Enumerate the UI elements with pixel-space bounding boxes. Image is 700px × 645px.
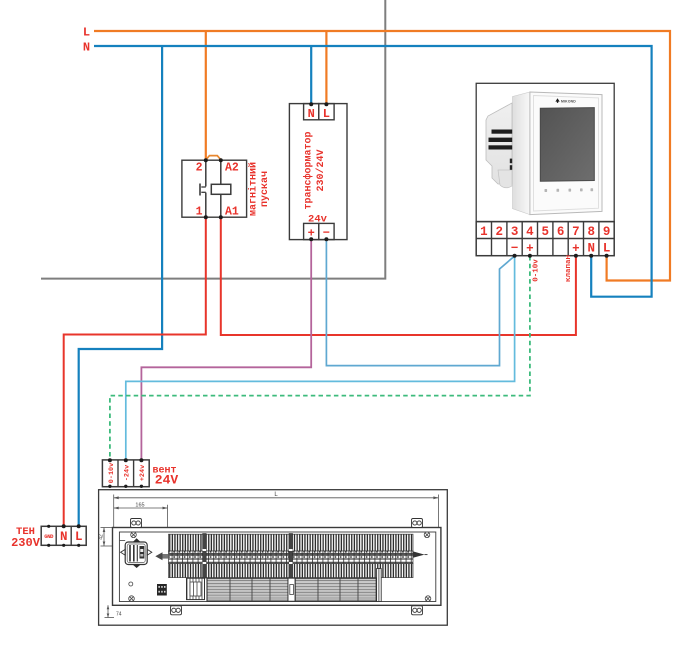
heat exchanger fins top band bbox=[169, 534, 414, 551]
heat exchanger fins bottom band bbox=[169, 564, 414, 578]
svg-text:0-10v: 0-10v bbox=[532, 259, 540, 282]
svg-text:5: 5 bbox=[541, 225, 549, 239]
convector unit drawing bbox=[99, 490, 448, 626]
bracket bar 3 bbox=[377, 569, 382, 602]
svg-text:A1: A1 bbox=[225, 206, 239, 219]
heat-sink fin 3 bbox=[489, 145, 513, 149]
svg-text:9: 9 bbox=[603, 225, 611, 239]
dimension 165 bbox=[114, 505, 168, 533]
contactor K1 (магнітний пускач) bbox=[182, 160, 247, 217]
valve bottom lug bbox=[133, 565, 141, 569]
svg-text:2: 2 bbox=[495, 225, 503, 239]
svg-text:74: 74 bbox=[116, 612, 122, 618]
wire N branch to transformer N bbox=[310, 46, 312, 105]
thermostat logo MIKOND bbox=[555, 98, 559, 103]
wire L bus (orange) to thermostat terminal 9 bbox=[94, 31, 670, 281]
TEN terminal block (ТЕН 230V) bbox=[41, 526, 86, 545]
pipe stub to valve bbox=[119, 540, 125, 542]
svg-text:+24v: +24v bbox=[139, 465, 147, 481]
svg-text:GND: GND bbox=[44, 533, 54, 540]
svg-text:N: N bbox=[308, 107, 315, 121]
thermostat terminal strip bbox=[476, 222, 614, 256]
svg-text:L: L bbox=[323, 107, 330, 121]
fan motor box bbox=[187, 578, 205, 599]
svg-text:42: 42 bbox=[99, 534, 105, 540]
wire jumper contactor 2 to A2 (orange) bbox=[206, 156, 221, 160]
contactor node dots bbox=[204, 158, 223, 219]
thermostat screen bbox=[540, 108, 594, 182]
svg-text:3: 3 bbox=[511, 225, 519, 239]
corner screw bottom-right bbox=[425, 596, 431, 602]
svg-text:N: N bbox=[587, 242, 595, 256]
wire green dashed 0-10v: thermostat terminal 4 to vent 0-10v bbox=[110, 256, 530, 461]
valve top lug bbox=[133, 538, 141, 542]
svg-text:N: N bbox=[83, 41, 90, 55]
svg-text:4: 4 bbox=[526, 225, 534, 239]
wire pale blue: thermostat terminal 3 to vent -24v bbox=[126, 256, 515, 461]
vent terminal block (вент 24V) bbox=[102, 460, 149, 487]
svg-text:−: − bbox=[511, 242, 519, 256]
svg-text:6: 6 bbox=[557, 225, 565, 239]
svg-text:L: L bbox=[83, 26, 90, 40]
valve flag right bbox=[147, 549, 152, 555]
svg-text:клапан: клапан bbox=[565, 255, 573, 282]
fin edge marks bbox=[515, 128, 521, 145]
bracket bar 2 bbox=[289, 534, 293, 579]
mounting bolt bottom-left bbox=[171, 606, 182, 615]
wire red: contactor 1 to TEN terminal N bbox=[64, 217, 206, 527]
pipe end left arrow bbox=[155, 552, 162, 560]
mounting bolt top-right bbox=[412, 519, 423, 528]
valve flag left bbox=[121, 549, 126, 555]
transformer T1 230/24V bbox=[289, 104, 347, 240]
electrical connector block bbox=[157, 584, 167, 596]
screw left mid bbox=[129, 582, 133, 586]
wire N bus (blue) to thermostat terminal 8 bbox=[94, 46, 652, 297]
transformer node dots bbox=[309, 102, 328, 241]
bracket bar 1 bbox=[203, 534, 207, 579]
fan barrel 2 bbox=[295, 578, 376, 601]
dimension left height bbox=[101, 528, 113, 547]
corner screw top-left bbox=[131, 532, 137, 538]
wire L branch to contactor terminal 2 bbox=[205, 31, 207, 160]
svg-text:1: 1 bbox=[196, 206, 203, 219]
fan barrel 1 bbox=[207, 578, 288, 601]
heat-sink fin 1 bbox=[492, 130, 513, 134]
wire pale blue: transformer - to thermostat terminal 3 bbox=[326, 240, 514, 366]
svg-text:L: L bbox=[75, 530, 83, 544]
TEN node dots bbox=[47, 524, 81, 547]
svg-text:N: N bbox=[60, 530, 68, 544]
connector blocks on back bbox=[510, 159, 513, 164]
thermostat photo frame bbox=[476, 83, 614, 221]
svg-text:165: 165 bbox=[135, 503, 144, 509]
thermostat photo bbox=[486, 92, 602, 215]
svg-text:230V: 230V bbox=[11, 536, 41, 550]
terminal strip node dots bbox=[513, 254, 609, 258]
mounting bolt top-left bbox=[131, 519, 142, 528]
svg-text:8: 8 bbox=[587, 225, 595, 239]
wire L branch to transformer L bbox=[325, 31, 327, 105]
wire red: contactor A1 to thermostat terminal 7 (valve) bbox=[221, 217, 576, 335]
corner screw bottom-left bbox=[129, 596, 135, 602]
svg-text:0-10v: 0-10v bbox=[108, 463, 116, 483]
heat-sink fin 2 bbox=[489, 138, 513, 142]
svg-text:2: 2 bbox=[196, 162, 203, 175]
svg-text:1: 1 bbox=[480, 225, 488, 239]
housing inner shell bbox=[119, 532, 435, 602]
thermostat bottom foot bbox=[498, 170, 512, 188]
heat exchanger tube band bbox=[169, 551, 414, 564]
svg-text:24v: 24v bbox=[308, 214, 328, 226]
thermostat side face bbox=[513, 92, 530, 215]
valve box left bbox=[125, 542, 147, 565]
svg-text:7: 7 bbox=[572, 225, 580, 239]
dimension bottom-left bbox=[105, 605, 115, 617]
touch buttons bbox=[545, 188, 594, 192]
thermostat front panel bbox=[530, 92, 602, 215]
vent block node dots bbox=[108, 458, 143, 488]
housing outer shell bbox=[113, 528, 441, 606]
mounting bolt bottom-right bbox=[412, 606, 423, 615]
svg-text:MIKOND: MIKOND bbox=[561, 100, 576, 104]
gray mains riser wire bbox=[41, 0, 385, 279]
svg-text:24V: 24V bbox=[155, 473, 179, 488]
thermostat back mounting box bbox=[486, 103, 512, 184]
pipe end right arrow bbox=[413, 551, 425, 557]
svg-text:L: L bbox=[603, 242, 611, 256]
svg-text:A2: A2 bbox=[225, 162, 239, 175]
wire pink: transformer + to vent +24v bbox=[141, 240, 311, 461]
wire N branch to TEN terminal L bbox=[79, 46, 162, 527]
corner screw top-right bbox=[424, 532, 430, 538]
dimension L bbox=[114, 495, 439, 528]
drawing outer border bbox=[99, 490, 448, 626]
fan bearing gap bbox=[288, 578, 295, 601]
svg-text:-24v: -24v bbox=[124, 465, 132, 481]
